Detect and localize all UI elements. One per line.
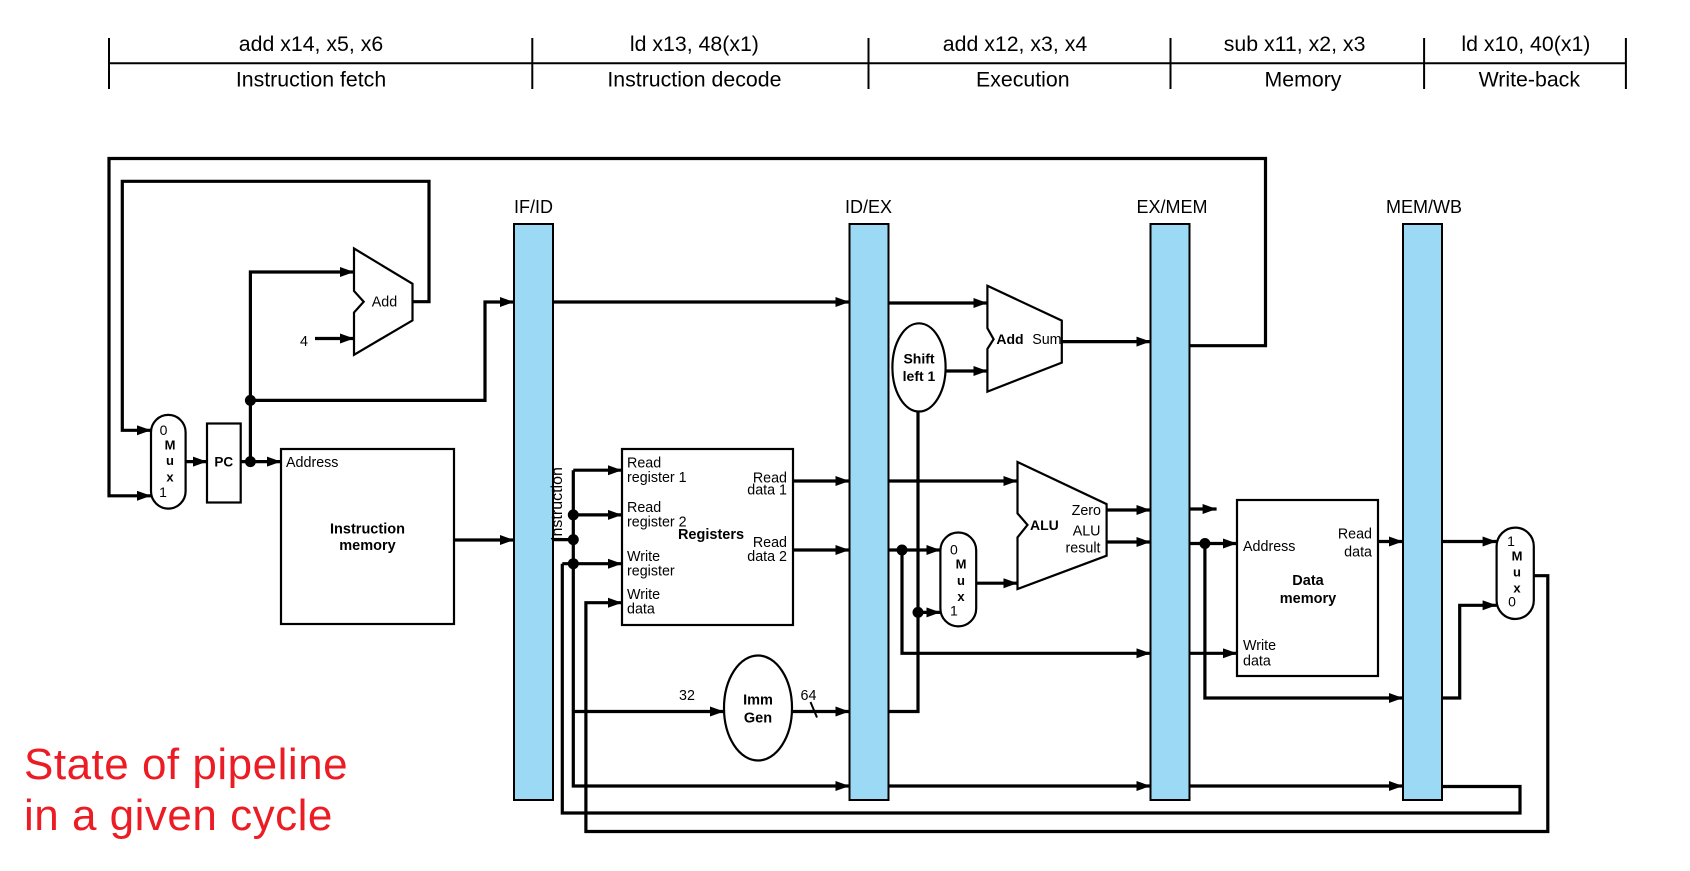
wire Data memory Read data to MEM/WB [1378, 540, 1403, 543]
svg-text:Instruction: Instruction [549, 467, 566, 541]
svg-text:Address: Address [286, 455, 338, 471]
svg-text:u: u [166, 453, 174, 468]
svg-text:add x14, x5, x6: add x14, x5, x6 [239, 32, 383, 56]
wire read data 2 down to EX/MEM (store data) [902, 550, 1151, 653]
svg-text:M: M [1512, 549, 1523, 564]
svg-text:0: 0 [950, 541, 958, 557]
wire PC+4 feedback (Add out to Mux input 0) [122, 181, 429, 430]
wire instruction bus vertical to ID/EX bottom [573, 470, 849, 786]
svg-text:Instruction decode: Instruction decode [607, 68, 781, 92]
block Instruction memory [281, 449, 454, 624]
junction instruction in [568, 534, 579, 545]
wire ALU Mux out to ALU bottom input [976, 582, 1017, 585]
svg-text:1: 1 [1507, 533, 1515, 549]
junction PC out [245, 456, 256, 467]
svg-text:Data: Data [1292, 573, 1324, 589]
svg-text:0: 0 [160, 422, 168, 438]
svg-text:32: 32 [679, 688, 695, 704]
wire immediate to ALU Mux input 1 [918, 611, 940, 614]
mux ALUSrc [940, 533, 976, 627]
junction read data 2 [897, 545, 908, 556]
svg-text:Read: Read [1338, 527, 1372, 543]
wire Add Sum out to EX/MEM [1062, 340, 1151, 343]
svg-text:1: 1 [950, 603, 958, 619]
svg-text:data 2: data 2 [747, 549, 787, 565]
wire Imm Gen out to ID/EX [792, 710, 850, 713]
stage tick 1 [108, 38, 110, 89]
wire IF/ID to ID/EX (PC) [553, 300, 850, 303]
svg-text:ld x10, 40(x1): ld x10, 40(x1) [1461, 32, 1590, 56]
wire IF/ID instruction out [553, 538, 573, 541]
pipeline register ID/EX [850, 224, 889, 800]
svg-text:u: u [1513, 565, 1521, 580]
wire ALU result down to MEM/WB [1205, 544, 1403, 699]
junction immediate to Mux [913, 607, 924, 618]
wire EX/MEM ALU result to Data memory Address [1190, 542, 1238, 545]
wire Read data 1 to ID/EX [793, 479, 850, 482]
wire MEM/WB to final Mux input 1 [1442, 540, 1497, 543]
adder Add Sum [987, 286, 1061, 392]
svg-text:Add: Add [996, 331, 1023, 347]
svg-text:Memory: Memory [1265, 68, 1342, 92]
svg-text:EX/MEM: EX/MEM [1136, 197, 1207, 217]
junction instruction write register [568, 558, 579, 569]
svg-text:Shift: Shift [903, 351, 934, 367]
mux write-back [1497, 528, 1534, 619]
svg-text:Imm: Imm [743, 693, 773, 709]
wire rd chain ID/EX to EX/MEM [889, 784, 1151, 787]
svg-text:Address: Address [1243, 539, 1295, 555]
svg-text:Instruction fetch: Instruction fetch [236, 68, 386, 92]
wire EX/MEM store data to Data memory Write data [1190, 652, 1238, 655]
svg-text:u: u [957, 573, 965, 588]
svg-text:ALU: ALU [1073, 524, 1101, 540]
wire Zero stub out of EX/MEM [1190, 507, 1217, 510]
svg-text:left 1: left 1 [903, 368, 936, 384]
pipeline register IF/ID [514, 224, 553, 800]
svg-text:0: 0 [1508, 594, 1516, 610]
wire instruction to Write register [562, 562, 622, 565]
wire ID/EX read data 2 to Mux [889, 548, 941, 551]
junction ALU result [1199, 538, 1210, 549]
wire instruction to Read register 1 [573, 469, 622, 472]
svg-text:result: result [1066, 541, 1101, 557]
svg-text:Add: Add [372, 295, 397, 311]
wire PC to Instruction memory Address [241, 460, 281, 463]
wire rd chain EX/MEM to MEM/WB [1190, 784, 1404, 787]
wire ALU result to EX/MEM [1107, 540, 1151, 543]
svg-text:x: x [957, 589, 965, 604]
wire ID/EX to ALU top input [889, 479, 1018, 482]
svg-text:Zero: Zero [1072, 503, 1101, 519]
svg-text:M: M [956, 557, 967, 572]
svg-text:1: 1 [159, 484, 167, 500]
bus-width slash 64 [811, 702, 818, 718]
stage tick 5 [1423, 38, 1425, 89]
svg-text:64: 64 [801, 688, 817, 704]
wire 4 into Add [315, 337, 354, 340]
wire ALU Zero to EX/MEM [1107, 508, 1151, 511]
wire write-register loop from MEM/WB [562, 564, 1520, 813]
mux PCSrc [151, 415, 186, 509]
wire Mux to PC [186, 460, 207, 463]
stage bracket rule [109, 62, 1626, 64]
adder Add (PC+4) [354, 249, 413, 355]
block Registers [622, 449, 793, 625]
svg-text:M: M [165, 438, 176, 453]
wire immediate up to Shift left 1 [889, 412, 919, 712]
svg-text:Sum: Sum [1032, 332, 1061, 348]
svg-text:data: data [1344, 545, 1372, 561]
junction PC branch [245, 395, 256, 406]
svg-text:Execution: Execution [976, 68, 1070, 92]
stage tick 4 [1170, 38, 1172, 89]
stage tick 3 [868, 38, 870, 89]
pipeline register EX/MEM [1151, 224, 1190, 800]
svg-text:IF/ID: IF/ID [514, 197, 553, 217]
svg-text:data: data [627, 602, 655, 618]
svg-text:4: 4 [300, 334, 308, 350]
junction instruction read register 2 [568, 509, 579, 520]
svg-text:register 1: register 1 [627, 470, 687, 486]
svg-text:Write-back: Write-back [1479, 68, 1581, 92]
pipeline register MEM/WB [1403, 224, 1442, 800]
wire ID/EX to Add top input [889, 301, 988, 304]
wire branch-target feedback (EX/MEM to Mux top loop) [109, 159, 1266, 496]
block Data memory [1237, 500, 1378, 676]
svg-text:memory: memory [339, 538, 395, 554]
svg-text:add x12, x3, x4: add x12, x3, x4 [943, 32, 1088, 56]
wire PC value up to Add top input [250, 272, 354, 462]
svg-text:State of pipeline: State of pipeline [24, 740, 348, 789]
svg-text:Gen: Gen [744, 711, 772, 727]
svg-text:Registers: Registers [678, 527, 744, 543]
stage tick 2 [531, 38, 533, 89]
wire PC branch to IF/ID [250, 302, 514, 400]
stage tick 6 [1625, 38, 1627, 89]
svg-text:x: x [166, 470, 174, 485]
svg-text:register: register [627, 564, 675, 580]
svg-text:memory: memory [1280, 591, 1336, 607]
wire Read data 2 to ID/EX [793, 548, 850, 551]
svg-text:data: data [1243, 654, 1271, 670]
alu ALU [1018, 462, 1107, 589]
svg-text:PC: PC [214, 455, 233, 470]
svg-text:ALU: ALU [1030, 517, 1059, 533]
svg-text:data 1: data 1 [747, 483, 787, 499]
svg-text:ID/EX: ID/EX [845, 197, 892, 217]
svg-text:Write: Write [1243, 638, 1276, 654]
svg-text:sub x11, x2, x3: sub x11, x2, x3 [1224, 32, 1366, 56]
wire instruction to Imm Gen [573, 710, 724, 713]
wire Shift left 1 to Add [946, 369, 988, 372]
ellipse Shift left 1 [892, 323, 945, 411]
ellipse Imm Gen [724, 656, 792, 761]
svg-text:MEM/WB: MEM/WB [1386, 197, 1462, 217]
svg-text:ld x13, 48(x1): ld x13, 48(x1) [630, 32, 759, 56]
wire MEM/WB ALU result to final Mux input 0 [1442, 605, 1497, 698]
wire instruction to Read register 2 [573, 513, 622, 516]
svg-text:Instruction: Instruction [330, 522, 405, 538]
svg-text:in a given cycle: in a given cycle [24, 791, 333, 840]
wire Instruction memory to IF/ID [454, 538, 514, 541]
register PC [207, 424, 241, 503]
wire write-data loop from final Mux [586, 576, 1548, 832]
